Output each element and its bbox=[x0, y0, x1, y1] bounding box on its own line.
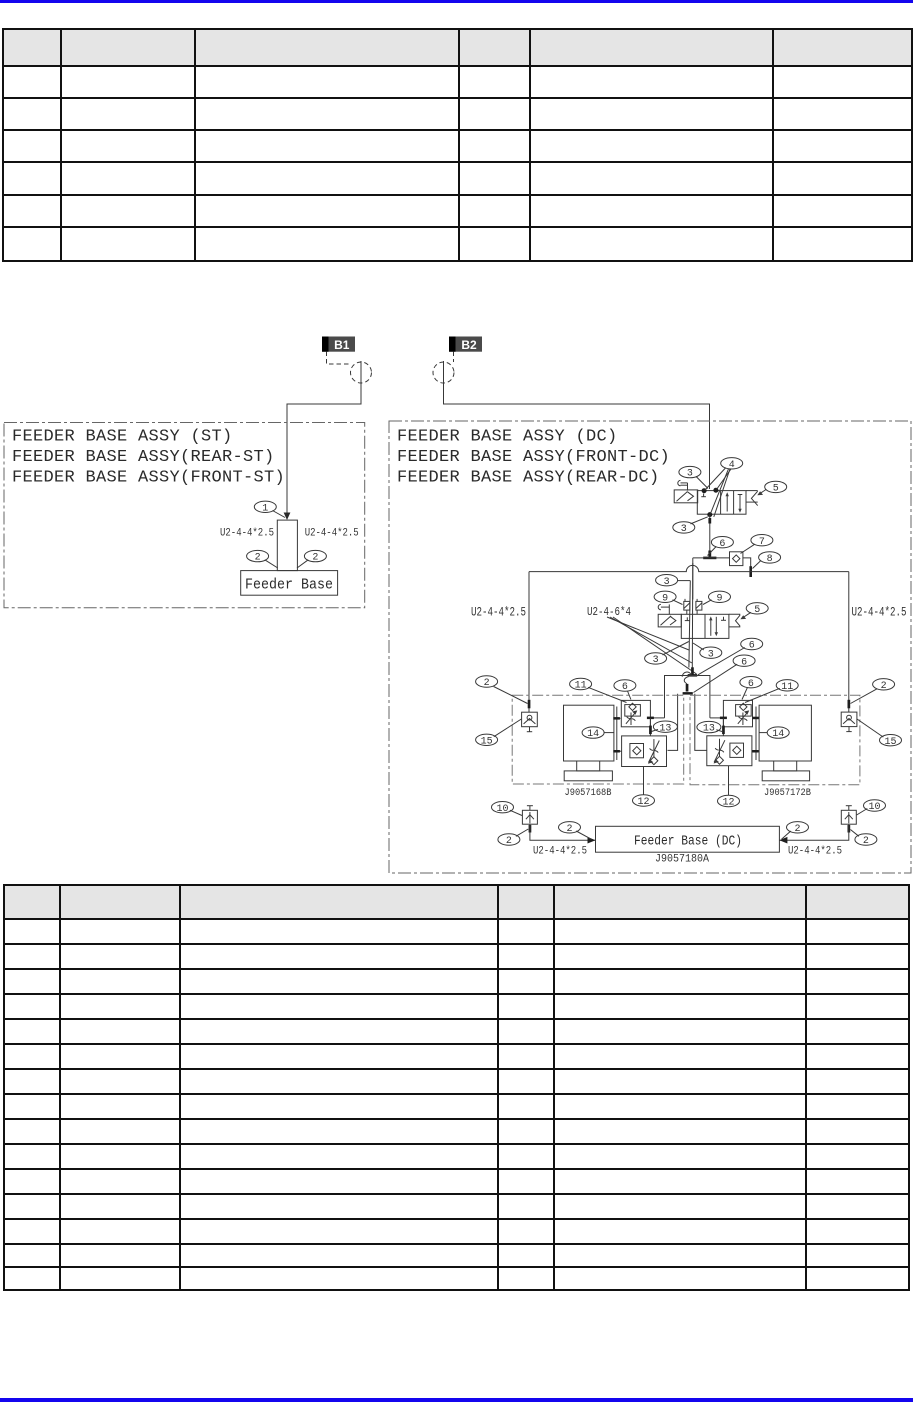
svg-text:9: 9 bbox=[716, 593, 722, 604]
balloon circle B2 bbox=[433, 362, 454, 383]
Feeder Base (DC) box bbox=[596, 826, 780, 852]
distribution rectangle top bbox=[665, 676, 710, 718]
balloon 13 right bbox=[697, 721, 722, 734]
svg-text:J9057180A: J9057180A bbox=[655, 854, 709, 866]
check valve 15 right bbox=[841, 712, 857, 732]
manifold bus line with crossover hop bbox=[529, 565, 849, 571]
balloon 2 dc-midleft bbox=[559, 822, 592, 840]
flow control lower left bbox=[622, 736, 667, 767]
balloon 2 dc-left bbox=[498, 829, 528, 847]
svg-text:U2-4-4*2.5: U2-4-4*2.5 bbox=[533, 846, 587, 858]
cylinder L base bbox=[564, 771, 612, 781]
balloon 5 v2 bbox=[740, 603, 768, 620]
svg-text:2: 2 bbox=[484, 678, 490, 689]
svg-text:B2: B2 bbox=[461, 338, 477, 352]
top parts table (empty) bbox=[2, 28, 913, 262]
junction J1 tick bbox=[703, 557, 716, 560]
wire upper box to shuttle leg bbox=[650, 717, 664, 719]
svg-text:1: 1 bbox=[262, 503, 268, 514]
svg-text:13: 13 bbox=[703, 724, 715, 735]
cylinder L body bbox=[564, 705, 614, 761]
Feeder Base box bbox=[241, 571, 338, 596]
svg-text:10: 10 bbox=[496, 804, 508, 815]
cylinder R base bbox=[762, 771, 809, 781]
cylinder L pedestal bbox=[577, 761, 600, 771]
svg-text:8: 8 bbox=[767, 554, 773, 565]
tick above 15 right bbox=[848, 700, 851, 709]
balloon 1 bbox=[254, 501, 285, 517]
balloon 2 left bbox=[247, 550, 278, 568]
flow control upper left bbox=[621, 700, 650, 726]
svg-text:15: 15 bbox=[884, 737, 896, 748]
bottom blue rule bbox=[0, 1398, 913, 1402]
right cylinder sub-box bbox=[690, 695, 860, 785]
bus right drop bbox=[848, 572, 850, 713]
top blue rule bbox=[0, 0, 913, 3]
flow control lower right bbox=[707, 736, 752, 766]
svg-text:6: 6 bbox=[741, 657, 747, 668]
svg-text:12: 12 bbox=[637, 797, 649, 808]
svg-text:6: 6 bbox=[622, 682, 628, 693]
valve V2 spring triangle bbox=[729, 614, 740, 627]
check valve 15 left bbox=[522, 712, 538, 732]
balloon 10 left bbox=[492, 802, 523, 816]
right box titles bbox=[397, 428, 670, 488]
svg-text:2: 2 bbox=[863, 836, 869, 847]
callout B1 bbox=[322, 337, 355, 353]
balloon 3 below-left bbox=[645, 642, 689, 667]
balloon 6 shuttle-b bbox=[694, 655, 756, 693]
svg-text:FEEDER BASE ASSY(FRONT-ST): FEEDER BASE ASSY(FRONT-ST) bbox=[12, 469, 285, 488]
wire J1 to check box bbox=[693, 557, 730, 559]
svg-text:U2-4-4*2.5: U2-4-4*2.5 bbox=[305, 528, 359, 540]
svg-text:2: 2 bbox=[506, 836, 512, 847]
wire 10L to feeder base bbox=[530, 824, 596, 840]
lower junction ticks bbox=[686, 684, 689, 692]
balloon 2 bus-right bbox=[851, 679, 895, 704]
cyl R upper stub bbox=[753, 717, 760, 719]
flow control upper right bbox=[723, 700, 752, 726]
balloon 6 shuttle-a bbox=[698, 638, 763, 675]
svg-text:FEEDER BASE ASSY (DC): FEEDER BASE ASSY (DC) bbox=[397, 428, 618, 447]
left box titles bbox=[12, 428, 285, 488]
tube pair through valve V2 bbox=[689, 581, 690, 668]
svg-text:2: 2 bbox=[312, 553, 318, 564]
svg-text:3: 3 bbox=[708, 649, 714, 660]
tick below 10 right bbox=[848, 825, 851, 833]
item 10 right bbox=[841, 806, 856, 825]
svg-text:10: 10 bbox=[868, 802, 880, 813]
balloon 3 v1 bottom bbox=[673, 517, 708, 535]
svg-text:U2-4-4*2.5: U2-4-4*2.5 bbox=[788, 846, 842, 858]
svg-text:14: 14 bbox=[772, 729, 784, 740]
balloon 3 v1 top bbox=[679, 466, 708, 488]
fitting 9 right bbox=[696, 599, 702, 610]
cylinder R body bbox=[759, 705, 811, 761]
balloon 10 right bbox=[857, 800, 886, 815]
svg-text:U2-4-4*2.5: U2-4-4*2.5 bbox=[471, 605, 526, 619]
left assy dash-dot box bbox=[4, 423, 365, 608]
svg-text:11: 11 bbox=[575, 681, 587, 692]
valve V1 pilot flag bbox=[678, 480, 688, 490]
balloon 3 tube-left bbox=[656, 575, 691, 588]
shuttle arc bbox=[682, 672, 691, 677]
svg-text:9: 9 bbox=[662, 593, 668, 604]
arrow into feeder base left bbox=[588, 837, 596, 844]
svg-text:6: 6 bbox=[719, 539, 725, 550]
svg-text:Feeder Base (DC): Feeder Base (DC) bbox=[634, 833, 742, 849]
svg-text:5: 5 bbox=[773, 484, 779, 495]
balloon 2 dc-midright bbox=[782, 822, 809, 840]
balloon 4 bbox=[705, 458, 743, 517]
svg-text:J9057172B: J9057172B bbox=[764, 787, 811, 799]
svg-text:2: 2 bbox=[566, 824, 572, 835]
svg-text:3: 3 bbox=[681, 524, 687, 535]
svg-text:3: 3 bbox=[687, 469, 693, 480]
valve V2 pilot flag bbox=[658, 604, 669, 614]
balloon 11 right bbox=[745, 680, 798, 703]
svg-text:12: 12 bbox=[722, 798, 734, 809]
svg-text:FEEDER BASE ASSY(REAR-ST): FEEDER BASE ASSY(REAR-ST) bbox=[12, 448, 275, 467]
valve V1 spring triangle bbox=[746, 491, 758, 506]
svg-text:3: 3 bbox=[653, 655, 659, 666]
svg-text:2: 2 bbox=[255, 553, 261, 564]
valve V1 solenoid bbox=[674, 490, 698, 503]
balloon 12 right bbox=[718, 795, 740, 808]
balloon circle B1 bbox=[351, 362, 372, 383]
valve V2 body bbox=[681, 614, 729, 638]
valve V1 body bbox=[697, 491, 746, 515]
svg-text:11: 11 bbox=[781, 682, 793, 693]
svg-text:13: 13 bbox=[659, 723, 671, 734]
fitting 9 left bbox=[684, 599, 690, 614]
svg-text:FEEDER BASE ASSY (ST): FEEDER BASE ASSY (ST) bbox=[12, 428, 233, 447]
balloon 8 bbox=[753, 552, 781, 569]
check valve box item 7 bbox=[730, 552, 743, 566]
balloon 14 right bbox=[759, 727, 789, 740]
balloon 3 below-right bbox=[693, 643, 722, 660]
wire B1 drop bbox=[287, 361, 361, 513]
svg-text:FEEDER BASE ASSY(FRONT-DC): FEEDER BASE ASSY(FRONT-DC) bbox=[397, 448, 670, 467]
wire shuttle leg to upper box right bbox=[710, 717, 724, 719]
wire box7 to bus bbox=[743, 558, 751, 572]
wire lower box to balloon 12 right bbox=[728, 766, 730, 796]
leaders from U2-4-6*4 bbox=[607, 617, 689, 650]
arrow into feeder base right bbox=[779, 837, 787, 844]
cyl L lower stub bbox=[614, 750, 622, 752]
balloon 5 v1 bbox=[757, 481, 786, 495]
wire lower box to balloon 12 left bbox=[643, 767, 645, 795]
junction x723 ticks bbox=[720, 717, 727, 720]
balloon 12 left bbox=[633, 795, 655, 808]
balloon 6 upper-left box bbox=[614, 680, 636, 700]
dashed leader B1 bbox=[327, 352, 351, 365]
balloon 7 bbox=[741, 535, 773, 554]
balloon 2 bus-left bbox=[476, 676, 528, 704]
svg-text:5: 5 bbox=[754, 605, 760, 616]
svg-text:7: 7 bbox=[759, 537, 765, 548]
bottom parts table (empty) bbox=[3, 884, 910, 1291]
cyl L upper stub bbox=[614, 717, 621, 719]
balloon 2 right bbox=[297, 550, 326, 568]
wire 10R to feeder base bbox=[779, 824, 848, 840]
balloon 9 right bbox=[703, 591, 731, 604]
balloon 14 left bbox=[582, 727, 614, 740]
balloon 2 dc-right bbox=[850, 830, 877, 848]
tick below 10 left bbox=[529, 825, 532, 833]
svg-text:2: 2 bbox=[881, 681, 887, 692]
svg-text:3: 3 bbox=[664, 577, 670, 588]
balloon 9 left bbox=[654, 591, 682, 604]
tick above 15 left bbox=[528, 700, 531, 709]
shuttle junction ticks bbox=[691, 667, 694, 674]
balloon 15 right bbox=[857, 719, 902, 748]
balloon 15 left bbox=[476, 719, 522, 747]
junction 8 tick bbox=[749, 566, 752, 577]
valve V2 solenoid bbox=[658, 614, 681, 627]
dashed leader B2 bbox=[453, 352, 455, 363]
distribution verticals to lower boxes bbox=[668, 694, 678, 751]
balloon 13 left bbox=[652, 721, 678, 734]
junction x650 ticks bbox=[647, 717, 654, 720]
svg-text:J9057168B: J9057168B bbox=[565, 787, 612, 799]
balloon 11 left bbox=[570, 678, 627, 702]
arrow into fitting bbox=[284, 513, 291, 521]
svg-text:U2-4-4*2.5: U2-4-4*2.5 bbox=[852, 605, 907, 619]
svg-text:2: 2 bbox=[794, 824, 800, 835]
balloon 6 j1 bbox=[708, 537, 734, 556]
svg-text:6: 6 bbox=[749, 641, 755, 652]
svg-text:B1: B1 bbox=[334, 338, 350, 352]
wire below V1 bbox=[709, 515, 711, 557]
bus left drop bbox=[528, 572, 530, 713]
cyl R lower stub bbox=[752, 750, 759, 752]
fitting U2 (item 1) bbox=[277, 520, 297, 571]
callout B2 bbox=[449, 337, 482, 353]
cylinder R pedestal bbox=[774, 761, 797, 771]
svg-text:Feeder Base: Feeder Base bbox=[245, 578, 333, 594]
balloon 6 upper-right box bbox=[740, 677, 762, 700]
item 10 left bbox=[522, 806, 537, 825]
svg-text:14: 14 bbox=[587, 729, 599, 740]
left cylinder sub-box bbox=[512, 695, 684, 784]
right assy dash-dot box bbox=[389, 421, 911, 873]
wire B2 drop bbox=[444, 361, 710, 489]
svg-text:6: 6 bbox=[748, 679, 754, 690]
svg-text:FEEDER BASE ASSY(REAR-DC): FEEDER BASE ASSY(REAR-DC) bbox=[397, 469, 660, 488]
svg-text:U2-4-6*4: U2-4-6*4 bbox=[587, 605, 631, 619]
s-wire to lower junction bbox=[684, 677, 688, 684]
svg-text:U2-4-4*2.5: U2-4-4*2.5 bbox=[220, 528, 274, 540]
valve V1 port dots bbox=[702, 488, 707, 493]
wire J1 left drop bbox=[692, 558, 694, 600]
svg-text:15: 15 bbox=[481, 736, 493, 747]
